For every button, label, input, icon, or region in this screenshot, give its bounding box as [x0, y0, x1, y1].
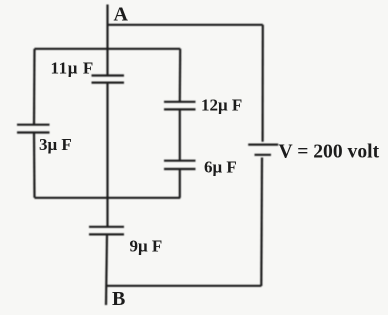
capacitor C4 6uF plates	[164, 160, 196, 162]
wire bottom B to battery	[106, 285, 261, 287]
wire left loop top	[35, 48, 181, 50]
wire middle branch upper	[179, 49, 182, 102]
svg-text:6μ F: 6μ F	[204, 158, 237, 177]
wire battery branch lower	[260, 158, 263, 287]
wire spine bottom B segment	[106, 234, 107, 305]
capacitor C3 12uF plates	[164, 101, 196, 103]
wire battery branch upper	[262, 25, 264, 142]
capacitor C1 11uF plates	[92, 74, 125, 76]
wire middle branch lower	[179, 169, 181, 198]
svg-text:A: A	[114, 4, 129, 26]
capacitor C5 9uF plates	[89, 226, 124, 228]
battery V long plate	[248, 144, 278, 146]
wire spine top A segment	[106, 5, 108, 76]
svg-text:V = 200 volt: V = 200 volt	[279, 141, 380, 162]
svg-text:3μ F: 3μ F	[39, 135, 72, 154]
svg-text:12μ F: 12μ F	[201, 96, 242, 115]
battery V short plate	[255, 154, 272, 156]
wire spine middle segment	[106, 83, 108, 227]
wire left branch upper	[33, 49, 36, 125]
wire left loop bottom	[35, 197, 181, 199]
wire top A to battery	[108, 24, 263, 26]
svg-text:B: B	[112, 288, 125, 310]
wire left branch lower	[33, 133, 36, 198]
svg-text:9μ F: 9μ F	[130, 237, 163, 256]
svg-text:11μ F: 11μ F	[51, 59, 94, 78]
capacitor C2 3uF plates	[17, 124, 50, 126]
wire middle branch between caps	[179, 109, 181, 160]
